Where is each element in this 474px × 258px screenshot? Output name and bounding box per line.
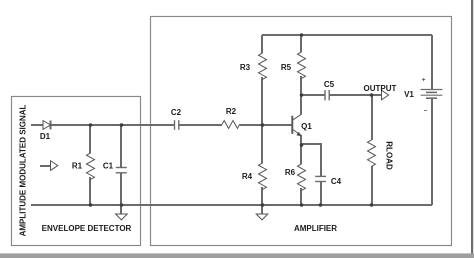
- svg-text:R4: R4: [242, 172, 253, 181]
- svg-text:Q1: Q1: [301, 122, 312, 131]
- svg-text:C4: C4: [331, 177, 342, 186]
- svg-text:R3: R3: [240, 63, 251, 72]
- svg-text:OUTPUT: OUTPUT: [364, 84, 397, 93]
- svg-text:R5: R5: [281, 63, 292, 72]
- svg-text:V1: V1: [404, 90, 414, 99]
- svg-text:R1: R1: [72, 162, 83, 171]
- svg-text:RLOAD: RLOAD: [385, 141, 394, 170]
- svg-text:C2: C2: [171, 108, 182, 117]
- svg-text:AMPLITUDE MODULATED SIGNAL: AMPLITUDE MODULATED SIGNAL: [19, 104, 28, 236]
- svg-text:C1: C1: [103, 162, 114, 171]
- svg-text:ENVELOPE DETECTOR: ENVELOPE DETECTOR: [42, 224, 132, 233]
- svg-text:C5: C5: [324, 80, 335, 89]
- svg-text:R6: R6: [285, 168, 296, 177]
- svg-text:R2: R2: [226, 107, 237, 116]
- svg-text:D1: D1: [40, 132, 51, 141]
- svg-text:AMPLIFIER: AMPLIFIER: [294, 224, 337, 233]
